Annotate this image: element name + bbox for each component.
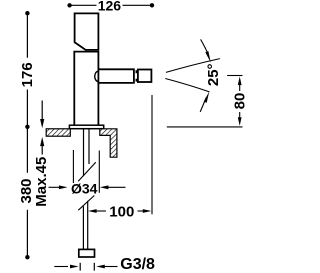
svg-text:126: 126 <box>98 0 122 13</box>
svg-text:100: 100 <box>109 203 134 220</box>
svg-text:G3/8: G3/8 <box>120 256 155 273</box>
svg-text:Ø34: Ø34 <box>71 181 98 197</box>
svg-text:25°: 25° <box>205 63 222 86</box>
svg-text:Max.45: Max.45 <box>33 157 50 207</box>
svg-text:80: 80 <box>231 93 248 110</box>
svg-text:176: 176 <box>19 62 36 87</box>
